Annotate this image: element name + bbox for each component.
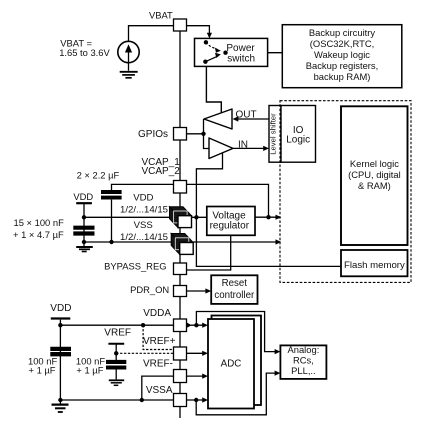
svg-text:switch: switch — [227, 53, 255, 64]
svg-text:Level shifter: Level shifter — [269, 113, 278, 155]
svg-text:1/2/...14/15: 1/2/...14/15 — [120, 232, 168, 243]
svg-text:backup RAM): backup RAM) — [314, 71, 371, 82]
svg-text:GPIOs: GPIOs — [138, 129, 168, 140]
svg-text:IN: IN — [238, 139, 248, 150]
svg-text:RCs,: RCs, — [293, 355, 314, 366]
svg-text:VDD: VDD — [73, 191, 93, 202]
svg-text:VCAP_2: VCAP_2 — [142, 166, 181, 177]
svg-text:(OSC32K,RTC,: (OSC32K,RTC, — [310, 38, 374, 49]
svg-text:ADC: ADC — [221, 359, 242, 370]
svg-text:VBAT: VBAT — [149, 10, 173, 21]
svg-text:+ 1 µF: + 1 µF — [76, 365, 103, 376]
svg-text:Power: Power — [226, 43, 255, 54]
svg-text:VSSA: VSSA — [146, 385, 173, 396]
svg-text:PDR_ON: PDR_ON — [130, 284, 169, 295]
svg-text:BYPASS_REG: BYPASS_REG — [104, 260, 166, 271]
svg-text:VREF: VREF — [104, 328, 131, 339]
svg-text:regulator: regulator — [210, 221, 250, 232]
svg-text:VDDA: VDDA — [143, 308, 171, 319]
svg-text:Reset: Reset — [222, 278, 248, 289]
svg-text:VDD: VDD — [133, 192, 153, 203]
svg-text:15 × 100 nF: 15 × 100 nF — [14, 217, 65, 228]
svg-text:VSS: VSS — [134, 220, 153, 231]
svg-text:Kernel logic: Kernel logic — [350, 158, 399, 169]
svg-text:VDD: VDD — [50, 303, 71, 314]
svg-text:OUT: OUT — [236, 109, 257, 120]
svg-text:Logic: Logic — [286, 135, 310, 146]
svg-text:1/2/...14/15: 1/2/...14/15 — [120, 205, 168, 216]
svg-text:1.65 to 3.6V: 1.65 to 3.6V — [59, 47, 110, 58]
svg-text:PLL,..: PLL,.. — [291, 365, 316, 376]
svg-text:2 × 2.2 µF: 2 × 2.2 µF — [77, 169, 120, 180]
svg-text:VREF+: VREF+ — [143, 336, 176, 347]
svg-text:Backup registers,: Backup registers, — [306, 60, 378, 71]
svg-text:(CPU, digital: (CPU, digital — [348, 169, 401, 180]
svg-text:+ 1 × 4.7 µF: + 1 × 4.7 µF — [13, 229, 64, 240]
svg-text:+ 1 µF: + 1 µF — [29, 365, 56, 376]
svg-text:Flash memory: Flash memory — [344, 260, 405, 271]
svg-text:Analog:: Analog: — [288, 344, 320, 355]
svg-text:Wakeup logic: Wakeup logic — [314, 49, 370, 60]
svg-text:Backup circuitry: Backup circuitry — [309, 27, 375, 38]
svg-text:VREF-: VREF- — [143, 359, 173, 370]
svg-text:controller: controller — [214, 290, 255, 301]
svg-text:& RAM): & RAM) — [358, 180, 391, 191]
